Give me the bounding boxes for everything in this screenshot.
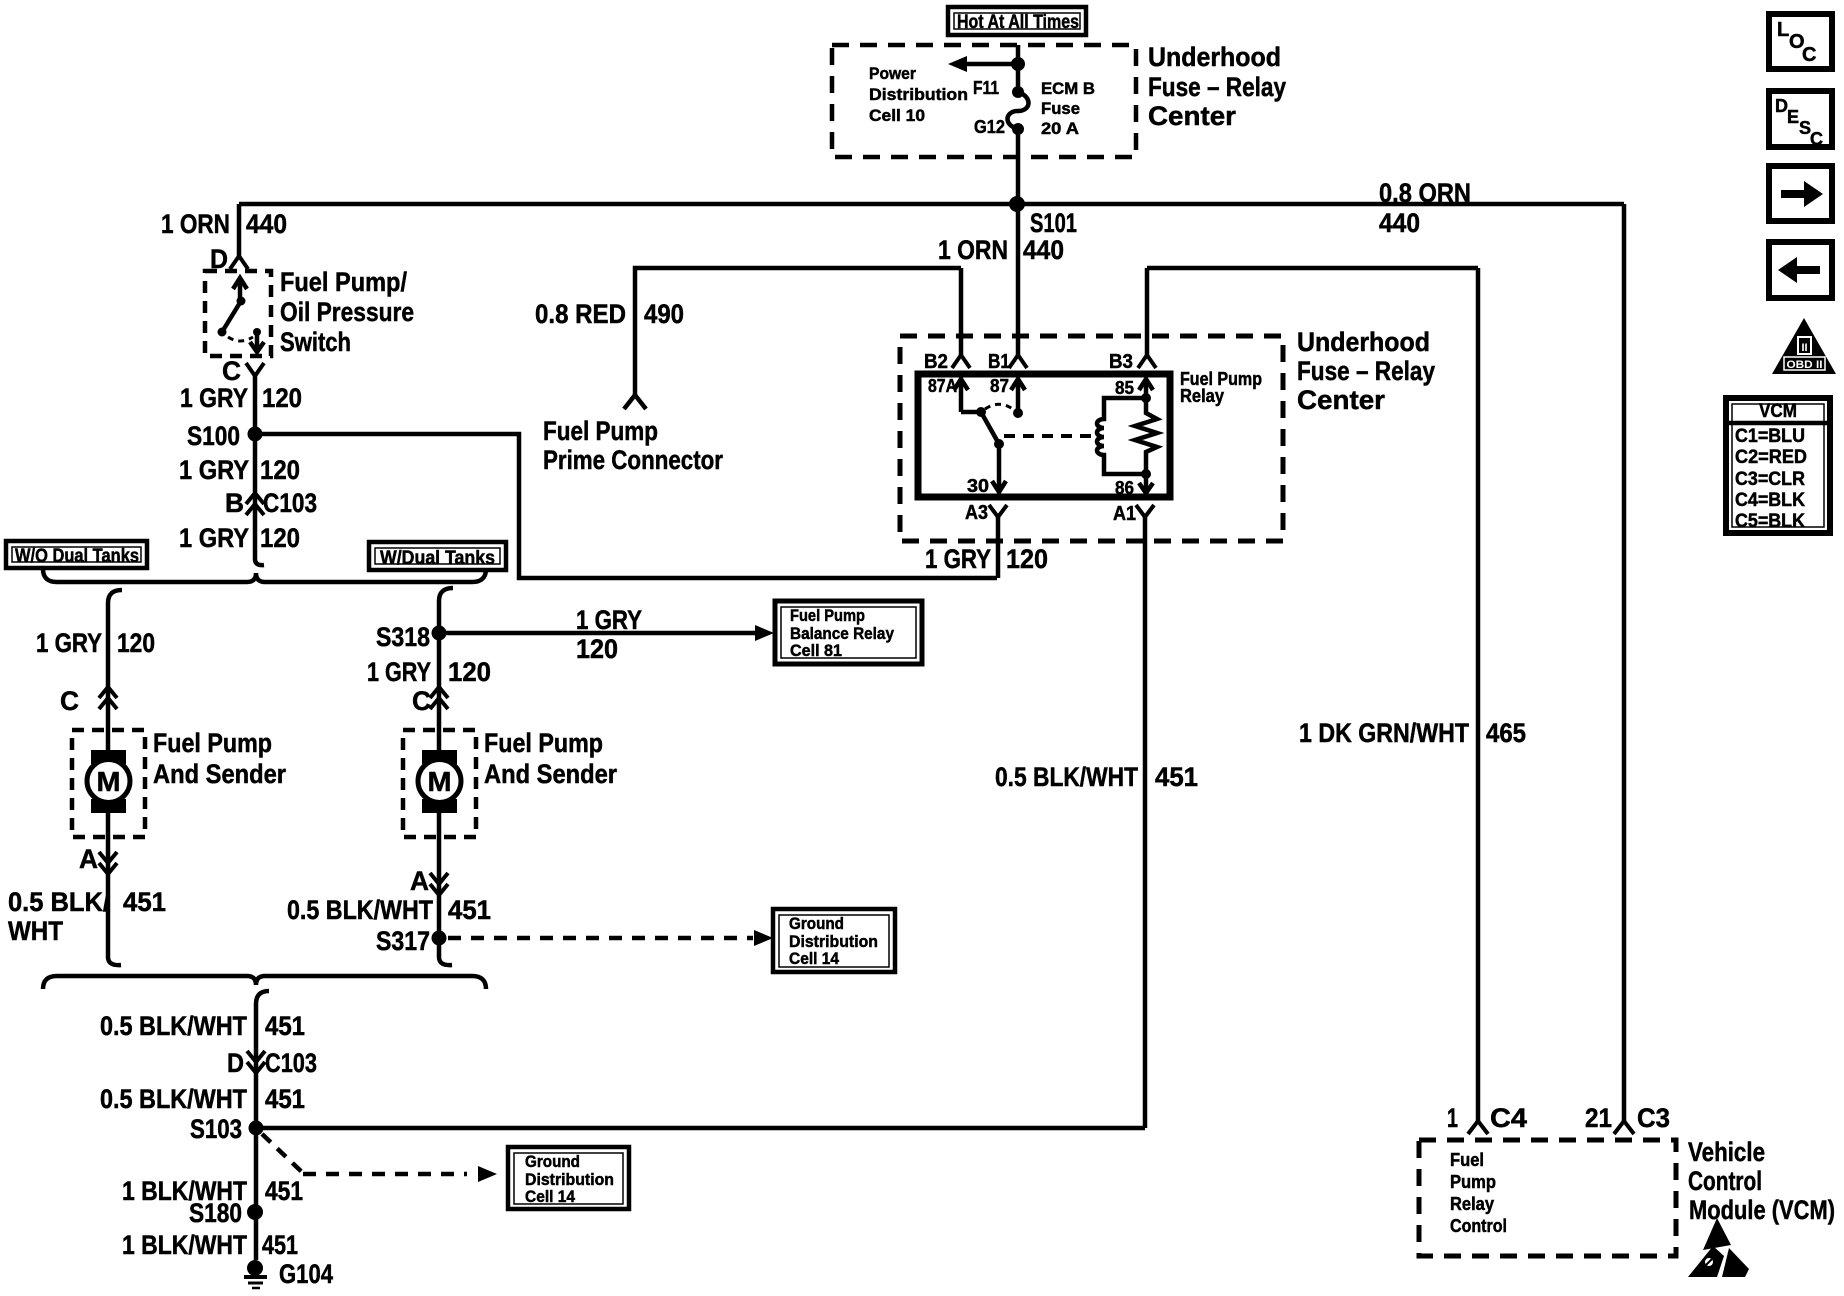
svg-text:Cell 14: Cell 14 xyxy=(789,949,839,968)
label 0.5 BLK/WHT 451 (right) xyxy=(287,895,491,925)
svg-text:C: C xyxy=(412,686,431,716)
svg-text:OBD II: OBD II xyxy=(1787,359,1823,371)
label 1 ORN 440 (below S101) xyxy=(938,235,1064,265)
svg-text:C: C xyxy=(222,356,241,386)
connector pin B1 xyxy=(1009,355,1027,368)
svg-text:A3: A3 xyxy=(965,502,988,524)
switch arm xyxy=(218,301,242,337)
svg-text:1 ORN: 1 ORN xyxy=(161,209,230,239)
svg-text:Cell 10: Cell 10 xyxy=(869,106,925,125)
svg-text:1: 1 xyxy=(1447,1103,1458,1133)
svg-text:Underhood: Underhood xyxy=(1297,327,1430,357)
relay pin 30 arrow xyxy=(992,444,1006,492)
svg-text:440: 440 xyxy=(246,209,287,239)
svg-text:C5=BLK: C5=BLK xyxy=(1735,511,1805,532)
connector pin A1 xyxy=(1136,505,1154,517)
wire 0.8 RED 490 xyxy=(635,268,961,395)
relay switch travel dashed arc xyxy=(985,404,1014,410)
connector B C103 xyxy=(246,493,264,515)
svg-text:451: 451 xyxy=(265,1084,305,1114)
node S100 xyxy=(248,427,263,442)
svg-text:1 GRY: 1 GRY xyxy=(180,383,248,413)
fuel pump and sender dashed box (right) xyxy=(403,730,476,837)
svg-text:Center: Center xyxy=(1148,101,1236,131)
fuel pump relay solid box xyxy=(918,374,1170,497)
wire hook left branch xyxy=(108,590,122,750)
svg-text:C103: C103 xyxy=(263,488,317,518)
connector pin 1 C4 xyxy=(1468,1121,1488,1134)
motor M left xyxy=(87,750,130,813)
icon LOC xyxy=(1769,14,1832,69)
label 0.5 BLK/WHT 451 (chain row2) xyxy=(100,1084,305,1114)
svg-text:Fuse – Relay: Fuse – Relay xyxy=(1148,72,1286,102)
label 1 GRY 120 right branch xyxy=(367,657,491,687)
svg-text:WHT: WHT xyxy=(8,916,63,946)
label vehicle control module xyxy=(1688,1137,1835,1225)
wire 1 DK GRN/WHT 465 down to VCM pin 1 C4 xyxy=(1476,268,1481,1121)
wire 1 ORN 440 horizontal bus xyxy=(239,202,1624,207)
ESD warning symbol xyxy=(1688,1218,1749,1277)
svg-text:B: B xyxy=(225,488,244,518)
svg-text:Fuel Pump/: Fuel Pump/ xyxy=(280,267,407,297)
svg-text:120: 120 xyxy=(448,657,491,687)
label box W/O Dual Tanks xyxy=(6,541,147,568)
node S101 xyxy=(1009,196,1025,212)
svg-text:G104: G104 xyxy=(279,1259,333,1289)
svg-text:Fuel Pump: Fuel Pump xyxy=(484,728,603,758)
fuel pump and sender dashed box (left) xyxy=(72,730,145,837)
svg-text:C103: C103 xyxy=(265,1048,317,1078)
svg-text:1 GRY: 1 GRY xyxy=(367,657,431,687)
svg-text:0.5 BLK/WHT: 0.5 BLK/WHT xyxy=(100,1084,247,1114)
wire 0.8 ORN 440 down to VCM pin 21 C3 xyxy=(1622,204,1627,1121)
svg-text:Fuel Pump: Fuel Pump xyxy=(790,606,865,625)
ground distribution cell 14 box (lower) xyxy=(508,1147,629,1209)
label fuel pump and sender (right) xyxy=(484,728,617,789)
svg-text:S100: S100 xyxy=(187,421,240,451)
VCM dashed box xyxy=(1419,1140,1676,1256)
svg-text:1 ORN: 1 ORN xyxy=(938,235,1008,265)
label fuel pump prime connector xyxy=(543,416,723,475)
svg-text:451: 451 xyxy=(448,895,491,925)
label underhood fuse relay center (top) xyxy=(1148,42,1286,131)
label 0.8 RED 490 xyxy=(535,299,684,329)
label 0.8 ORN 440 xyxy=(1379,178,1471,238)
node S318 xyxy=(432,626,447,641)
svg-text:E: E xyxy=(1787,107,1799,127)
svg-text:451: 451 xyxy=(265,1011,305,1041)
svg-text:Control: Control xyxy=(1450,1216,1507,1236)
svg-text:S318: S318 xyxy=(376,622,430,652)
node junction to power distribution xyxy=(1011,57,1025,71)
label 1 GRY 120 (row1) xyxy=(180,383,302,413)
svg-text:Fuse: Fuse xyxy=(1041,99,1080,118)
svg-text:451: 451 xyxy=(265,1176,303,1206)
svg-text:A: A xyxy=(79,844,98,874)
label 1 DK GRN/WHT 465 xyxy=(1299,718,1526,748)
wire end hook above brace xyxy=(255,549,264,565)
svg-text:S180: S180 xyxy=(189,1198,242,1228)
label 1 BLK/WHT 451 (row4) xyxy=(122,1230,298,1260)
dashed wire S317 to ground distribution xyxy=(448,930,773,946)
svg-text:C: C xyxy=(1810,129,1823,149)
svg-text:85: 85 xyxy=(1115,378,1134,398)
svg-text:Fuel Pump: Fuel Pump xyxy=(153,728,272,758)
svg-text:20 A: 20 A xyxy=(1041,119,1079,138)
svg-text:Hot At All Times: Hot At All Times xyxy=(957,12,1079,33)
svg-text:C3=CLR: C3=CLR xyxy=(1735,469,1805,490)
svg-text:Cell 14: Cell 14 xyxy=(525,1187,575,1206)
label 0.5 BLK/WHT 451 (A1 wire) xyxy=(995,762,1198,792)
underhood fuse center dashed box (top) xyxy=(832,45,1136,157)
svg-text:S317: S317 xyxy=(376,926,430,956)
label 1 BLK/WHT 451 (row3) xyxy=(122,1176,303,1206)
label 1 GRY 120 (row2) xyxy=(179,455,300,485)
svg-text:86: 86 xyxy=(1115,478,1134,498)
svg-text:440: 440 xyxy=(1023,235,1064,265)
svg-text:ECM B: ECM B xyxy=(1041,79,1095,98)
connector pin D xyxy=(230,256,248,269)
svg-text:B1: B1 xyxy=(988,351,1010,373)
svg-text:S103: S103 xyxy=(190,1114,242,1144)
label 1 GRY 120 left branch xyxy=(36,628,155,658)
relay coil link dashed xyxy=(1004,434,1095,438)
label 1 GRY 120 (balance wire) xyxy=(576,605,642,664)
node S103 xyxy=(249,1121,264,1136)
svg-text:1 GRY: 1 GRY xyxy=(576,605,642,635)
underhood fuse center dashed box (relay) xyxy=(900,336,1283,541)
label fuel pump relay control xyxy=(1450,1150,1507,1236)
label 0.5 BLK/WHT 451 (left) xyxy=(8,887,166,946)
svg-text:VCM: VCM xyxy=(1759,401,1797,422)
label 1 GRY 120 (A3 wire) xyxy=(925,544,1048,574)
icon DESC xyxy=(1769,91,1832,149)
wire hook below brace xyxy=(256,991,269,1260)
svg-text:Distribution: Distribution xyxy=(869,85,968,104)
wire S100 branch to relay pin 30 feed xyxy=(255,434,997,578)
label 0.5 BLK/WHT 451 (chain row1) xyxy=(100,1011,305,1041)
relay pin 86 arrow xyxy=(1139,474,1153,493)
label ECM B fuse xyxy=(1041,79,1095,138)
svg-text:120: 120 xyxy=(117,628,155,658)
connector pin C xyxy=(246,363,264,376)
svg-text:M: M xyxy=(428,766,452,797)
svg-text:C3: C3 xyxy=(1637,1103,1670,1133)
icon arrow left xyxy=(1769,242,1832,298)
svg-text:120: 120 xyxy=(260,523,300,553)
svg-text:C: C xyxy=(60,686,79,716)
wire fuse to S101 xyxy=(1016,129,1021,204)
label 1 ORN 440 (left) xyxy=(161,209,287,239)
svg-text:F11: F11 xyxy=(973,78,999,98)
svg-text:C: C xyxy=(1802,44,1816,66)
svg-text:B3: B3 xyxy=(1109,351,1133,373)
wire S318 down to right pump xyxy=(437,633,442,750)
svg-text:C2=RED: C2=RED xyxy=(1735,447,1807,468)
label box W/Dual Tanks xyxy=(369,542,506,570)
svg-text:And Sender: And Sender xyxy=(484,759,617,789)
svg-text:Relay: Relay xyxy=(1180,386,1224,406)
node S317 xyxy=(432,931,447,946)
label fuel pump relay xyxy=(1180,369,1262,406)
wire A1 down to S103 xyxy=(1143,517,1148,1128)
svg-text:30: 30 xyxy=(967,476,989,496)
svg-text:And Sender: And Sender xyxy=(153,759,286,789)
svg-text:Fuse – Relay: Fuse – Relay xyxy=(1297,356,1435,386)
wire S318 to balance relay xyxy=(439,625,774,641)
connector prime end xyxy=(624,395,646,409)
svg-text:Power: Power xyxy=(869,64,916,83)
svg-text:M: M xyxy=(97,766,121,797)
svg-text:1 GRY: 1 GRY xyxy=(36,628,102,658)
connector pin 21 C3 xyxy=(1614,1121,1634,1134)
svg-text:Oil Pressure: Oil Pressure xyxy=(280,297,414,327)
svg-text:440: 440 xyxy=(1379,208,1420,238)
svg-text:1 DK GRN/WHT: 1 DK GRN/WHT xyxy=(1299,718,1469,748)
svg-text:1 GRY: 1 GRY xyxy=(179,523,249,553)
svg-text:Fuel Pump: Fuel Pump xyxy=(543,416,658,446)
svg-text:Module (VCM): Module (VCM) xyxy=(1689,1195,1835,1225)
relay resistor xyxy=(1135,398,1157,474)
svg-text:1 GRY: 1 GRY xyxy=(179,455,249,485)
svg-text:Switch: Switch xyxy=(280,327,351,357)
relay switch arm xyxy=(981,412,999,444)
svg-text:451: 451 xyxy=(262,1230,298,1260)
wire B2 drop xyxy=(959,268,964,355)
label fuel pump and sender (left) xyxy=(153,728,286,789)
svg-text:D: D xyxy=(227,1048,244,1078)
wire S101 down to relay pin B1 xyxy=(1016,204,1021,355)
svg-text:0.8 RED: 0.8 RED xyxy=(535,299,626,329)
relay pin 87A arrow xyxy=(954,379,986,417)
wire pump to S317 and brace (right) xyxy=(439,813,452,965)
VCM connector color table xyxy=(1726,398,1830,533)
switch contact arrow down xyxy=(250,328,264,352)
svg-text:21: 21 xyxy=(1585,1103,1612,1133)
svg-text:120: 120 xyxy=(262,383,302,413)
svg-text:W/O Dual Tanks: W/O Dual Tanks xyxy=(15,546,139,567)
connector pin B3 xyxy=(1138,355,1156,368)
svg-text:Fuel: Fuel xyxy=(1450,1150,1484,1170)
relay pin 85 arrow xyxy=(1139,379,1153,403)
svg-text:Relay: Relay xyxy=(1450,1194,1494,1214)
node HOT label box xyxy=(948,7,1086,35)
svg-text:A1: A1 xyxy=(1113,503,1136,525)
bottom option brace xyxy=(43,976,486,989)
relay coil xyxy=(1097,398,1146,474)
wire drop to oil pressure switch xyxy=(237,204,242,256)
wire hook right branch xyxy=(439,588,453,633)
svg-text:II: II xyxy=(1801,342,1807,354)
connector pin B2 xyxy=(952,355,970,368)
svg-text:120: 120 xyxy=(576,634,618,664)
switch travel dashed arc xyxy=(228,337,253,341)
icon arrow right xyxy=(1769,166,1832,221)
connector C right pump xyxy=(430,687,448,709)
ground G104 xyxy=(244,1260,267,1288)
label fuel pump / oil pressure switch xyxy=(280,267,414,357)
oil pressure switch dashed box xyxy=(205,271,271,356)
svg-text:G12: G12 xyxy=(974,117,1005,137)
relay pin 87 arrow xyxy=(1011,379,1025,418)
svg-text:120: 120 xyxy=(1006,544,1048,574)
svg-text:Ground: Ground xyxy=(525,1152,580,1171)
svg-text:Pump: Pump xyxy=(1450,1172,1496,1192)
connector A right pump xyxy=(430,873,448,895)
svg-text:465: 465 xyxy=(1486,718,1526,748)
fuel pump balance relay box xyxy=(775,601,922,664)
svg-text:W/Dual Tanks: W/Dual Tanks xyxy=(380,548,495,569)
svg-text:A: A xyxy=(410,866,429,896)
connector pin A3 xyxy=(989,505,1007,517)
svg-text:1 BLK/WHT: 1 BLK/WHT xyxy=(122,1230,247,1260)
svg-text:C4=BLK: C4=BLK xyxy=(1735,490,1805,511)
svg-text:Cell 81: Cell 81 xyxy=(790,641,842,660)
connector C left pump xyxy=(99,687,117,709)
svg-text:0.5 BLK/WHT: 0.5 BLK/WHT xyxy=(100,1011,247,1041)
svg-text:Control: Control xyxy=(1688,1166,1762,1196)
svg-text:L: L xyxy=(1777,19,1789,41)
icon OBD II triangle xyxy=(1772,318,1836,374)
svg-text:Ground: Ground xyxy=(789,914,844,933)
svg-text:451: 451 xyxy=(123,887,166,917)
label power distribution xyxy=(869,64,968,125)
svg-text:451: 451 xyxy=(1155,762,1198,792)
ground distribution cell 14 box (upper) xyxy=(773,909,895,972)
wire arrow to power distribution cell 10 xyxy=(948,56,1018,72)
svg-text:0.5 BLK/WHT: 0.5 BLK/WHT xyxy=(995,762,1138,792)
svg-text:0.8 ORN: 0.8 ORN xyxy=(1379,178,1471,208)
svg-text:B2: B2 xyxy=(924,351,948,373)
switch contact arrow up xyxy=(233,278,247,306)
svg-text:C1=BLU: C1=BLU xyxy=(1735,426,1805,447)
label 1 GRY 120 (row3) xyxy=(179,523,300,553)
top option brace xyxy=(43,569,486,582)
svg-text:C4: C4 xyxy=(1490,1103,1527,1133)
wire from hot feed into fuse xyxy=(1016,45,1021,92)
fuse F11 ECM B 20A xyxy=(1007,86,1028,135)
wire C down through S100 xyxy=(253,376,258,549)
wire A3 down to S100 branch xyxy=(996,517,1001,578)
svg-text:S101: S101 xyxy=(1030,208,1077,238)
svg-text:Prime Connector: Prime Connector xyxy=(543,445,723,475)
connector A left pump xyxy=(99,852,117,874)
wire S103 to relay pin 86 return xyxy=(256,1126,1145,1131)
svg-text:Center: Center xyxy=(1297,385,1385,415)
svg-text:Vehicle: Vehicle xyxy=(1688,1137,1765,1167)
label underhood fuse relay center (relay) xyxy=(1297,327,1435,415)
motor M right xyxy=(418,750,461,813)
svg-text:0.5 BLK/: 0.5 BLK/ xyxy=(8,887,110,917)
svg-text:87A: 87A xyxy=(928,376,957,396)
svg-text:1 GRY: 1 GRY xyxy=(925,544,991,574)
svg-text:87: 87 xyxy=(990,376,1009,396)
svg-text:0.5 BLK/WHT: 0.5 BLK/WHT xyxy=(287,895,433,925)
node S180 xyxy=(247,1204,263,1220)
connector D C103 xyxy=(247,1051,265,1073)
svg-text:490: 490 xyxy=(644,299,684,329)
wire pump to ground brace (left) xyxy=(108,813,121,965)
wire B3 drop xyxy=(1147,268,1478,355)
svg-text:Underhood: Underhood xyxy=(1148,42,1281,72)
svg-text:120: 120 xyxy=(260,455,300,485)
dashed wire S103 to ground distribution xyxy=(262,1134,497,1182)
